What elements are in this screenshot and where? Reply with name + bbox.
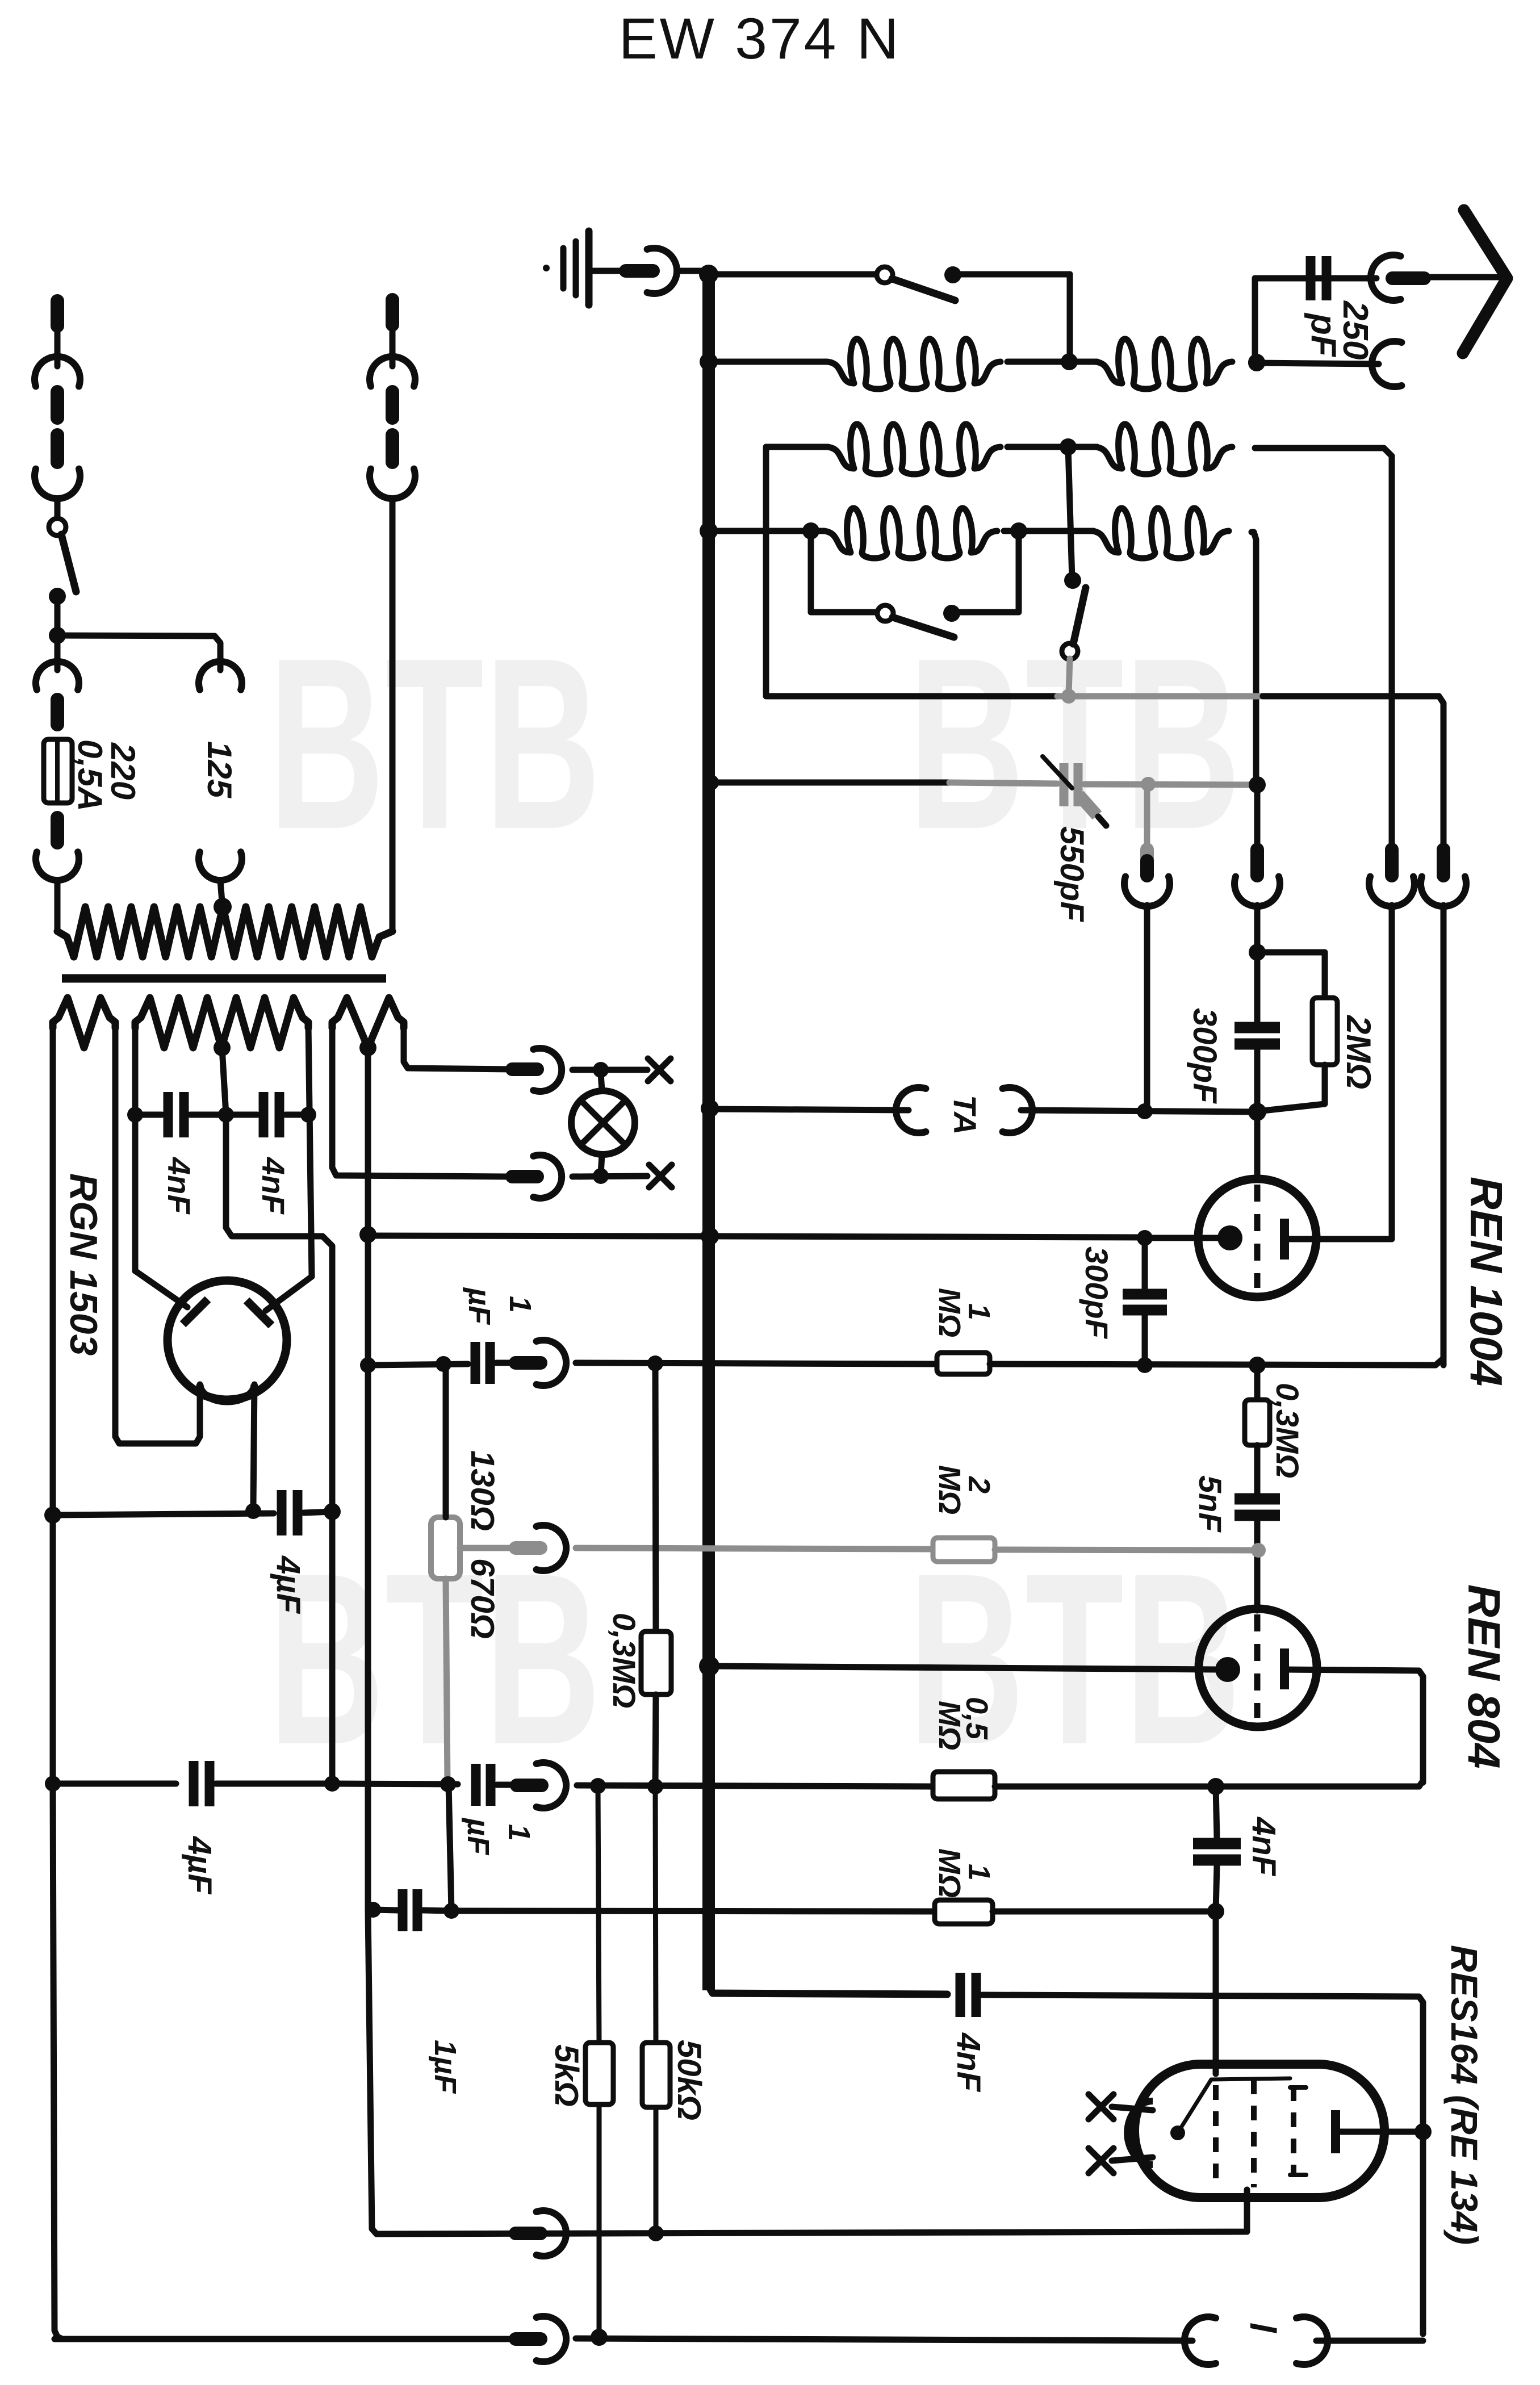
wire 4nF a stubs (1216, 1786, 1217, 1838)
switch S1 pole (877, 267, 893, 283)
node y3146 5k (590, 1778, 606, 1794)
wire lamp bottom from secC (332, 1025, 510, 1177)
socket ground (647, 248, 677, 294)
socket TA left (896, 1087, 926, 1133)
grid3 RES164 dashed (1291, 2086, 1296, 2175)
wire fil leads (1112, 2107, 1153, 2110)
filament lamp X top (648, 1058, 671, 1081)
wire y3146 right (995, 1784, 1419, 1790)
wire secA left leg lower (53, 1784, 62, 2339)
grid1 RES164 dashed (1213, 2085, 1219, 2181)
svg-text:5kΩ: 5kΩ (548, 2044, 585, 2107)
wire secB left leg (132, 1025, 139, 1271)
node bus cathode2 (699, 1656, 719, 1676)
plug fuse a (51, 700, 64, 725)
svg-text:REN 804: REN 804 (1459, 1584, 1509, 1769)
svg-text:MΩ: MΩ (932, 1701, 966, 1750)
wire x655 down (368, 1910, 372, 2229)
svg-text:130Ω: 130Ω (464, 1450, 501, 1531)
node fil lead join (245, 1503, 261, 1519)
wire secA left leg (50, 1025, 56, 1784)
secondary C (332, 998, 404, 1048)
wire y3141 b (216, 1781, 332, 1787)
wire RES grid down (1213, 1911, 1219, 2074)
resistor 0.3M (1245, 1400, 1270, 1445)
socket L3 output (1234, 877, 1280, 906)
node y2665 x585 (324, 1503, 341, 1520)
node 4nF left (127, 1107, 143, 1123)
decorative watermark (908, 1523, 1241, 1796)
socket mains2 lower (370, 469, 415, 499)
wire cathode to bus (715, 1236, 1145, 1237)
node grid y2404 (1249, 1357, 1266, 1374)
wire row3 mid (1004, 528, 1094, 534)
socket lamp top (533, 1048, 562, 1091)
wire 5k top (598, 1786, 599, 2043)
resistor 1M a (937, 1353, 990, 1374)
node y3366 x795 (443, 1903, 459, 1919)
socket fuse lower (36, 852, 79, 880)
anode RES164 plate (1331, 2110, 1340, 2153)
plug band bus (1437, 850, 1450, 876)
wire lamp bottom right (572, 1176, 647, 1177)
svg-text:125: 125 (200, 741, 238, 799)
wire detector tap upper gray (1144, 788, 1150, 847)
plug lamp top (512, 1062, 537, 1076)
anode REN804 plate (1280, 1648, 1289, 1689)
socket 1uF b (537, 1763, 566, 1808)
svg-text:RES164 (RE 134): RES164 (RE 134) (1443, 1945, 1485, 2245)
filament RES164 loop (1127, 2101, 1153, 2165)
svg-text:EW 374 N: EW 374 N (619, 6, 901, 71)
plug L2 output (1385, 850, 1399, 876)
socket screen (537, 2211, 566, 2256)
plug screen (516, 2227, 541, 2240)
node L2 mid (1060, 438, 1077, 455)
node y2404 x648 (360, 1357, 376, 1373)
switch S1 lever (892, 279, 955, 300)
wire ground stem (592, 268, 623, 274)
plug detector tap (1140, 850, 1154, 861)
grid REN804 dashed (1254, 1614, 1261, 1718)
wire 2M b to grid gray (995, 1550, 1253, 1550)
svg-text:550pF: 550pF (1053, 826, 1090, 922)
svg-text:4nF: 4nF (1245, 1817, 1282, 1877)
primary winding (57, 931, 74, 957)
wire 550pF from bus (709, 780, 949, 786)
svg-text:2: 2 (962, 1476, 996, 1493)
capacitor 250pF (1306, 256, 1316, 300)
node S1 throw (944, 266, 961, 283)
svg-text:BTB: BTB (268, 608, 601, 880)
node lamp bottom (593, 1168, 609, 1184)
socket L left (1185, 2317, 1216, 2365)
capacitor 4nF d (259, 1092, 269, 1137)
node secB tap (218, 1107, 234, 1123)
switch S3 pole (1062, 643, 1078, 659)
wire TA to grid (1021, 1110, 1254, 1112)
bus HV+ main vertical (702, 267, 715, 1990)
wire L3 output lower (1254, 905, 1261, 949)
resistor 2M grid-leak (1312, 998, 1337, 1065)
capacitor 1uF c (398, 1889, 408, 1931)
wire x585 down (329, 1512, 336, 1784)
capacitor 4nF c (164, 1092, 173, 1137)
switch S3 lever (1073, 588, 1086, 644)
arrow 550pF (1043, 756, 1072, 788)
wire anode1 diag (135, 1271, 187, 1307)
svg-text:4µF: 4µF (270, 1555, 307, 1614)
svg-text:300pF: 300pF (1186, 1008, 1223, 1104)
wire 50k bottom (654, 2107, 659, 2233)
node S0 throw (49, 588, 66, 605)
wire bypass right (1016, 531, 1022, 612)
resistor 0.3M left (641, 1631, 671, 1694)
wire 0.3M left down (655, 1694, 656, 1786)
node S2 throw (943, 605, 960, 622)
wire secB right leg (308, 1025, 312, 1277)
capacitor 4uF b (189, 1761, 199, 1806)
filament RES164 X1 (1089, 2094, 1114, 2119)
inductor L1b (1095, 339, 1232, 389)
wire 1uF a to plug (496, 1360, 513, 1366)
node B center tap (214, 1039, 231, 1056)
wire y2665 a (53, 1513, 274, 1515)
wire y3366 main (451, 1911, 935, 1911)
node y3366 right (1207, 1903, 1224, 1920)
node 125 tap (214, 898, 232, 916)
plug antenna (1392, 271, 1424, 285)
plug fuse b (51, 818, 64, 843)
node filament apex (1170, 2125, 1185, 2140)
socket y4119 (537, 2316, 566, 2362)
svg-text:4nF: 4nF (950, 2032, 987, 2093)
wire center tap down (222, 1048, 226, 1115)
wire busC corner (709, 1986, 947, 1994)
wire row3 from bus (715, 528, 823, 534)
inductor L2a (827, 424, 1001, 474)
wire antenna feed (1426, 274, 1504, 281)
capacitor 300pF cathode (1123, 1289, 1167, 1300)
wire mains2 down (390, 499, 396, 931)
wire detector tap lower (1144, 905, 1150, 1107)
svg-text:l: l (1242, 2323, 1283, 2333)
wire y4119 left (55, 2336, 513, 2342)
socket L right (1296, 2317, 1328, 2365)
ground (560, 248, 567, 288)
wire screen lead (376, 2190, 1247, 2234)
wire bus to switch S1 (715, 271, 876, 278)
plug mains1 pin (51, 301, 64, 326)
socket antenna (1371, 255, 1400, 300)
wire fil right lead (253, 1384, 254, 1506)
wire bypass bottom right (952, 609, 1018, 616)
socket 125 upper (199, 662, 242, 690)
plug L3 output (1250, 850, 1264, 876)
switch S2 lever (893, 617, 954, 637)
wire y3366 a (373, 1910, 397, 1910)
wire REN1004 anode (1284, 1236, 1390, 1242)
node bus TA (701, 1099, 719, 1118)
tube RGN1503 envelope (168, 1281, 287, 1400)
wire band bus gray part (1057, 693, 1263, 700)
cathode REN1004 (1217, 1225, 1242, 1250)
socket lamp bottom (533, 1155, 562, 1198)
node cathode x2016 (1137, 1230, 1153, 1246)
wire TA from bus (715, 1109, 909, 1110)
wire band bus lower (1441, 905, 1447, 1365)
wire bypass bottom left (811, 609, 877, 616)
wire x2016 down (1142, 1238, 1148, 1290)
wire 550pF gray (949, 783, 1057, 784)
plug mains2 c (386, 435, 399, 462)
capacitor 300pF grid (1234, 1022, 1280, 1033)
wire cap 250pF top (1255, 275, 1376, 282)
resistor 1M b (935, 1900, 993, 1924)
wire 50k top (655, 1786, 656, 2043)
socket L2 output (1369, 877, 1415, 906)
wire fil left lead (197, 1384, 203, 1392)
socket band bus (1421, 877, 1466, 906)
capacitor 550pF variable (1060, 763, 1069, 806)
svg-text:µF: µF (461, 1817, 495, 1856)
inductor L3a (823, 508, 997, 558)
plug mains1 c (51, 435, 64, 462)
wire y2404 right (990, 1364, 1436, 1365)
node y2665 left (44, 1507, 61, 1524)
node x648 y2177 (359, 1226, 376, 1243)
wire row2 to right corner (1255, 448, 1392, 843)
svg-text:2MΩ: 2MΩ (1340, 1015, 1378, 1089)
wire y2404 mid (576, 1363, 936, 1364)
node 4nF right (300, 1107, 316, 1123)
secondary A (53, 998, 115, 1048)
wire REN804 cathode (715, 1666, 1216, 1669)
decorative watermark (268, 608, 601, 880)
antenna (1463, 210, 1507, 353)
wire pot bottom gray (446, 1579, 447, 1783)
plug 1uF b (517, 1779, 542, 1792)
wire y2665 b (304, 1512, 332, 1513)
wire y3141 a (53, 1781, 176, 1787)
node y3146 x1154 (647, 1779, 663, 1794)
plug 1uF a (516, 1356, 541, 1370)
lamp bulb (571, 1091, 635, 1154)
svg-text:670Ω: 670Ω (464, 1558, 501, 1639)
plug mains1 b (51, 392, 64, 418)
node y2404 pot (436, 1356, 451, 1372)
wire lamp top right (572, 1067, 647, 1073)
socket mains1 upper (35, 357, 80, 386)
wire 125 link (57, 635, 220, 670)
wire L1 mid (1007, 359, 1097, 365)
svg-text:REN 1004: REN 1004 (1461, 1177, 1512, 1386)
node bus 550pF (703, 775, 719, 790)
resistor 5k (585, 2043, 613, 2104)
grid REN1004 dashed (1254, 1185, 1261, 1288)
inductor L2b (1095, 424, 1232, 474)
svg-text:50kΩ: 50kΩ (671, 2040, 708, 2120)
wire corner down to L1 (1067, 274, 1073, 362)
socket 125 lower (199, 852, 242, 880)
wire L2 output lower (1389, 905, 1395, 1239)
node 250pF bottom (1248, 354, 1265, 371)
wire REN804 anode (1284, 1669, 1423, 1783)
node bus row3 (700, 522, 718, 540)
svg-text:4µF: 4µF (181, 1836, 218, 1895)
wire ground to bus (677, 268, 709, 274)
wire x1154 down (655, 1364, 656, 1631)
wire L3 output upper (1254, 789, 1261, 847)
anode2 RGN plate (246, 1300, 271, 1325)
svg-text:4nF: 4nF (161, 1157, 197, 1215)
node screen 50k (648, 2225, 664, 2241)
node 550pF tap gray (1141, 777, 1156, 792)
switch S2 pole (877, 605, 893, 621)
svg-text:5nF: 5nF (1192, 1475, 1228, 1533)
transformer core (62, 974, 386, 983)
wire anode2 diag (266, 1277, 312, 1311)
tube REN1004 envelope (1198, 1179, 1316, 1297)
secondary B (135, 998, 308, 1048)
svg-text:1: 1 (502, 1824, 536, 1841)
wiper pot gray (460, 1545, 513, 1551)
svg-text:300pF: 300pF (1079, 1246, 1115, 1340)
wire y4122 right (1316, 2338, 1423, 2344)
svg-text:MΩ: MΩ (932, 1465, 966, 1514)
node fuse top (49, 627, 66, 644)
wire 4nF chain (135, 1112, 162, 1118)
svg-text:µF: µF (462, 1287, 496, 1325)
svg-text:1: 1 (503, 1296, 537, 1313)
wire x648 (365, 1048, 371, 1910)
plug mains2 pin (386, 300, 399, 325)
anode1 RGN plate (183, 1299, 208, 1324)
node 550pF right (1249, 776, 1266, 793)
node grid junction (1248, 1103, 1266, 1121)
wire 125 down (220, 880, 222, 902)
fuse 220 0.5A (44, 739, 72, 803)
grid1 RES164 link (1178, 2079, 1211, 2133)
wire y2177 to bus (368, 1236, 709, 1236)
svg-text:MΩ: MΩ (932, 1848, 966, 1898)
node lamp top (593, 1062, 609, 1078)
socket mains2 upper (370, 357, 415, 386)
wire REN1004 cathode (1148, 1235, 1219, 1241)
wire 300pF to y2404 (1142, 1315, 1148, 1365)
node bus row1 (700, 353, 718, 371)
wire 0.3M to 5nF (1254, 1445, 1261, 1493)
node L1 mid (1061, 353, 1078, 370)
tube RES164 envelope (1135, 2064, 1384, 2198)
node y2404 x1154 (647, 1355, 663, 1371)
wire y3146 mid (577, 1785, 936, 1786)
socket 1uF a (537, 1340, 566, 1386)
decorative watermark (268, 1523, 601, 1796)
node y3366 left (365, 1902, 381, 1918)
node 5k bottom (591, 2329, 608, 2346)
wire y2404 left (368, 1364, 468, 1365)
wire 1uF b plug (497, 1782, 514, 1788)
node S3 gray junction (1061, 689, 1076, 704)
svg-text:1µF: 1µF (428, 2040, 462, 2094)
capacitor 4nF a (1193, 1838, 1241, 1850)
socket row1 end (1372, 341, 1401, 387)
wire secA right leg (115, 1025, 200, 1443)
node C center tap (359, 1039, 376, 1056)
wire S0 down (55, 596, 61, 635)
wire row1 from bus (715, 359, 827, 365)
wire bypass left (808, 531, 814, 612)
wire x795 link (449, 1784, 451, 1911)
wire fuse to primary (55, 880, 61, 931)
wire band bus (766, 693, 1057, 700)
node y3141 x93 (45, 1776, 61, 1792)
capacitor 4nF b (956, 1973, 965, 2017)
wire band bus upper (1441, 843, 1447, 847)
svg-text:0,3MΩ: 0,3MΩ (1270, 1383, 1305, 1478)
wire L2 output upper (1389, 843, 1395, 847)
svg-text:pF: pF (1304, 312, 1343, 358)
socket TA right (1003, 1087, 1032, 1133)
node row1 junction (1248, 354, 1265, 371)
wire mains2 a (390, 327, 396, 366)
wire row2 left corner (766, 447, 828, 694)
wire lamp top from secC (404, 1025, 510, 1069)
svg-text:0,5A: 0,5A (71, 739, 109, 811)
wire row3 right corner (1252, 532, 1256, 779)
wire 0.3M top (1254, 1365, 1261, 1400)
filament RES164 X2 (1089, 2148, 1114, 2173)
grid2 RES164 dashed (1251, 2079, 1257, 2187)
svg-text:4nF: 4nF (256, 1157, 291, 1215)
potentiometer 130/670 track (431, 1517, 460, 1579)
socket mains1 lower (35, 469, 80, 499)
resistor 50k (642, 2043, 670, 2107)
node S3 top (1064, 572, 1081, 589)
wire mains1 to switch (55, 499, 61, 517)
node y3141 x585 (324, 1776, 340, 1792)
svg-text:RGN 1503: RGN 1503 (62, 1173, 105, 1355)
node row3 tap left (802, 522, 819, 539)
wire S1 to corner (953, 271, 1070, 278)
inductor L3b (1091, 508, 1229, 558)
wire 300pF stubs (1254, 956, 1261, 1022)
wire 2M bottom (1263, 1065, 1325, 1111)
svg-text:220: 220 (104, 742, 142, 800)
plug mains2 b (386, 392, 399, 418)
node 2M branch (1249, 944, 1266, 961)
switch S0 lever (61, 534, 76, 592)
inductor L1a (827, 339, 1001, 389)
svg-text:1: 1 (962, 1864, 996, 1881)
wire y4119 mid (576, 2338, 1192, 2341)
wire fuse link (55, 635, 61, 670)
svg-text:TA: TA (947, 1095, 983, 1135)
wire S3 pole down gray (1069, 659, 1070, 694)
wire 1M b to node (993, 1909, 1216, 1915)
decorative watermark (908, 608, 1241, 880)
node TA x2016 (1137, 1103, 1153, 1119)
wire 550pF right gray (1085, 784, 1249, 785)
tube REN804 envelope (1199, 1609, 1317, 1727)
anode REN1004 plate (1280, 1219, 1289, 1260)
wire y3141 c (332, 1784, 458, 1784)
svg-text:MΩ: MΩ (932, 1288, 966, 1337)
svg-text:1: 1 (962, 1303, 996, 1320)
wire pot top (443, 1364, 449, 1517)
resistor 2M b gray (933, 1538, 995, 1562)
